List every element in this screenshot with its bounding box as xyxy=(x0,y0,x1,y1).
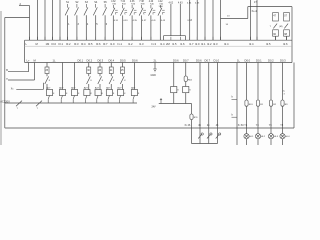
svg-text:I0.0: I0.0 xyxy=(52,42,57,46)
svg-text:b: b xyxy=(232,96,234,99)
wire output drop col x88.75 xyxy=(88,63,90,68)
limit switch stack column 2 contact xyxy=(284,24,288,29)
supply arrow 24V xyxy=(160,99,162,104)
wire lamp column x258 xyxy=(257,63,259,146)
wire coil KA2 jog to AC bus xyxy=(61,96,62,100)
relay coil K8 xyxy=(171,87,177,93)
wire M drop to a xyxy=(34,63,36,81)
svg-text:K: K xyxy=(138,93,140,95)
wire output drop col x111.25 xyxy=(110,63,112,68)
svg-text:Y4: Y4 xyxy=(256,125,260,127)
wire coil KA8 jog to AC bus xyxy=(133,96,134,100)
svg-text:D0.7: D0.7 xyxy=(205,59,211,63)
svg-text:45: 45 xyxy=(198,125,201,127)
svg-text:M: M xyxy=(36,42,39,46)
svg-text:K: K xyxy=(190,90,192,92)
svg-text:I0.3: I0.3 xyxy=(74,42,79,46)
svg-text:D0.1: D0.1 xyxy=(78,59,84,63)
svg-text:I0.7: I0.7 xyxy=(103,42,108,46)
svg-text:L+: L+ xyxy=(27,59,30,63)
svg-text:HL1: HL1 xyxy=(250,136,255,138)
svg-text:I1.5: I1.5 xyxy=(172,42,177,46)
svg-text:K: K xyxy=(124,14,126,16)
wire long bottom rail y128 xyxy=(5,127,294,129)
svg-text:30: 30 xyxy=(87,70,90,72)
wire contact to coil xyxy=(99,84,101,90)
wire coil KA3 jog to AC bus xyxy=(73,96,74,100)
svg-text:X6: X6 xyxy=(11,89,14,91)
contact K1 xyxy=(45,76,49,84)
svg-text:HL3: HL3 xyxy=(274,136,279,138)
svg-text:4.64: 4.64 xyxy=(187,2,192,4)
svg-text:D0.6: D0.6 xyxy=(196,59,202,63)
svg-text:24V: 24V xyxy=(152,107,157,109)
terminal block 26 xyxy=(98,67,102,74)
wire top-left horizontal xyxy=(5,17,30,19)
relay coil K9 xyxy=(183,87,189,93)
svg-text:2a: 2a xyxy=(283,91,286,93)
svg-text:D0.7: D0.7 xyxy=(183,59,189,63)
lamp HL2 xyxy=(255,134,260,139)
wire output drop col x47 xyxy=(46,63,48,68)
svg-text:GND: GND xyxy=(151,74,157,77)
svg-text:1L: 1L xyxy=(53,59,56,63)
resistor R1 xyxy=(256,100,259,106)
svg-text:07: 07 xyxy=(284,14,287,17)
svg-text:6: 6 xyxy=(106,23,108,26)
node 2 entry stub xyxy=(19,5,30,7)
svg-text:I1.2: I1.2 xyxy=(128,42,133,46)
svg-text:98: 98 xyxy=(284,33,287,36)
wire solenoid column x208.75 xyxy=(208,63,210,144)
svg-text:S3: S3 xyxy=(85,1,89,4)
svg-text:K: K xyxy=(91,80,93,82)
resistor R01 xyxy=(245,100,248,106)
fuse FU1 xyxy=(16,101,22,107)
svg-text:D0.6: D0.6 xyxy=(173,59,179,63)
svg-text:44: 44 xyxy=(207,125,210,127)
wire vertical col x205.0 xyxy=(204,0,206,40)
wire bypass bump right vertical xyxy=(185,36,187,41)
scan page edge streak xyxy=(0,11,2,145)
wire L+ drop to B xyxy=(28,63,30,72)
wire bottom solenoid rail xyxy=(192,143,218,145)
fuse FU2 xyxy=(36,101,42,107)
svg-text:I1.1: I1.1 xyxy=(118,42,123,46)
resistor R2 xyxy=(269,100,272,106)
svg-text:1L: 1L xyxy=(237,59,240,63)
svg-text:R1: R1 xyxy=(260,104,264,106)
svg-text:90: 90 xyxy=(273,33,276,36)
wire below terminal block xyxy=(122,74,124,77)
relay coil KA2 xyxy=(59,90,65,96)
wire step horizontal y18.5 xyxy=(221,18,248,20)
terminal block 30 xyxy=(87,67,91,74)
svg-text:T: T xyxy=(17,108,19,110)
svg-text:K: K xyxy=(143,14,145,16)
wire left vertical rail xyxy=(4,18,6,129)
svg-text:Y6: Y6 xyxy=(269,125,273,127)
svg-text:5: 5 xyxy=(96,23,98,26)
relay coil KA3 xyxy=(71,90,77,96)
wire vertical col x250.5 xyxy=(250,0,252,40)
relay coil KA7 xyxy=(118,90,124,96)
svg-text:K: K xyxy=(134,14,136,16)
wire below terminal block xyxy=(46,74,48,77)
svg-text:D0.6: D0.6 xyxy=(132,59,138,63)
solenoid YV2 symbol xyxy=(207,134,211,138)
svg-text:I1.4: I1.4 xyxy=(160,42,165,46)
wire step vertical x247.8 xyxy=(247,7,249,19)
svg-text:R2: R2 xyxy=(273,104,277,106)
wire drop x185.75 xyxy=(185,63,187,77)
svg-text:HL4: HL4 xyxy=(286,136,291,138)
svg-text:R3: R3 xyxy=(285,104,289,106)
resistor R02 xyxy=(184,76,187,82)
svg-text:K: K xyxy=(102,93,104,95)
wire lamp feed column x237 xyxy=(236,63,238,146)
limit switch stack column 2 box bottom xyxy=(284,30,290,36)
svg-text:4.65: 4.65 xyxy=(195,2,200,4)
svg-text:2L: 2L xyxy=(154,59,157,63)
wire solenoid column x200.0 xyxy=(199,63,201,144)
wire output drop to coil x62.5 xyxy=(62,63,64,90)
svg-text:3: 3 xyxy=(284,94,286,96)
svg-text:I0.1: I0.1 xyxy=(59,42,64,46)
wire contact to coil xyxy=(122,84,124,90)
svg-text:D0.5: D0.5 xyxy=(120,59,126,63)
wire bypass bump left vertical xyxy=(163,36,165,41)
svg-text:R02: R02 xyxy=(188,80,193,82)
svg-text:4.41: 4.41 xyxy=(151,20,156,22)
svg-text:21: 21 xyxy=(110,70,113,72)
svg-text:D0.0: D0.0 xyxy=(245,59,251,63)
svg-text:Y2: Y2 xyxy=(244,125,248,127)
terminal ticks on input line xyxy=(30,37,287,40)
contact K3 xyxy=(98,76,102,84)
svg-text:I0.2: I0.2 xyxy=(66,42,71,46)
svg-text:K: K xyxy=(113,93,115,95)
svg-text:S4: S4 xyxy=(94,1,98,4)
wire contact to coil xyxy=(88,84,90,90)
wire R02 to coil xyxy=(185,82,187,87)
svg-text:b: b xyxy=(232,114,234,117)
contact K5 xyxy=(120,76,124,84)
PLC left edge xyxy=(24,40,26,62)
svg-text:4: 4 xyxy=(87,23,89,26)
svg-text:L: L xyxy=(26,42,28,46)
ground GND xyxy=(154,63,156,70)
limit switch stack column 2 box top xyxy=(284,13,290,21)
wire solenoid column x217.5 xyxy=(217,63,219,144)
svg-text:4.43: 4.43 xyxy=(161,20,166,22)
resistor R3 xyxy=(281,100,284,106)
svg-text:4.37: 4.37 xyxy=(142,20,147,22)
svg-text:(M): (M) xyxy=(279,26,283,28)
svg-text:3: 3 xyxy=(78,23,80,26)
relay coil KA5 xyxy=(95,90,101,96)
svg-text:4.33: 4.33 xyxy=(123,20,128,22)
wire vertical col x220.5 xyxy=(220,0,222,40)
wire drop x191.5 xyxy=(191,104,193,115)
terminal block 21 xyxy=(109,67,113,74)
wire R11 down xyxy=(191,120,193,144)
svg-text:K: K xyxy=(53,93,55,95)
wire drop x173.75 xyxy=(173,63,175,87)
svg-text:D0.3: D0.3 xyxy=(98,59,104,63)
wire below terminal block xyxy=(88,74,90,77)
svg-text:4.31: 4.31 xyxy=(114,20,119,22)
PLC input terminal line xyxy=(25,39,292,41)
wire coil KA1 jog to AC bus xyxy=(48,96,49,100)
PLC input terminal labels xyxy=(26,42,288,46)
limit switch stack column 1 contact xyxy=(273,24,277,29)
svg-text:D0.4: D0.4 xyxy=(109,59,115,63)
svg-text:1M: 1M xyxy=(46,42,50,46)
wire AC220V bus xyxy=(5,102,137,104)
svg-text:HL2: HL2 xyxy=(261,136,266,138)
wire below terminal block xyxy=(99,74,101,77)
limit switch stack column 1 box top xyxy=(273,13,279,21)
svg-text:B: B xyxy=(6,69,8,72)
wire lamp column x246.5 xyxy=(246,63,248,146)
terminal block 25 xyxy=(121,67,125,74)
svg-text:T: T xyxy=(37,108,39,110)
svg-text:K: K xyxy=(90,93,92,95)
svg-text:47: 47 xyxy=(273,14,276,17)
wire coil K8 down xyxy=(173,93,175,104)
svg-text:I1.3: I1.3 xyxy=(152,42,157,46)
relay coil KA8 xyxy=(131,90,137,96)
svg-text:D0.1: D0.1 xyxy=(256,59,262,63)
wire bypass bump horizontal xyxy=(164,35,186,37)
svg-text:I2.1: I2.1 xyxy=(201,42,206,46)
svg-text:S2: S2 xyxy=(75,1,79,4)
wire X6 horizontal xyxy=(16,88,43,90)
svg-text:K: K xyxy=(102,80,104,82)
wire coil KA4 jog to AC bus xyxy=(86,96,87,100)
relay coil KA1 xyxy=(46,90,52,96)
resistor R11 xyxy=(190,114,193,120)
wire output drop col x122.5 xyxy=(122,63,124,68)
limit switch stack column 1 box bottom xyxy=(273,30,279,36)
svg-text:43: 43 xyxy=(216,125,219,127)
wire vertical col x45 xyxy=(44,0,46,40)
svg-text:I2.4: I2.4 xyxy=(224,42,229,46)
wire coil KA7 jog to AC bus xyxy=(119,96,120,100)
svg-text:I0.5: I0.5 xyxy=(88,42,93,46)
svg-text:D1.0: D1.0 xyxy=(214,59,220,63)
solenoid YV1 symbol xyxy=(198,134,202,138)
wire output drop to coil x74.5 xyxy=(74,63,76,90)
svg-text:25: 25 xyxy=(46,70,49,72)
svg-text:S5: S5 xyxy=(104,1,108,4)
wire coil KA5 jog to AC bus xyxy=(97,96,98,100)
svg-text:I2.0: I2.0 xyxy=(195,42,200,46)
svg-text:S1: S1 xyxy=(66,1,70,4)
svg-text:5.60: 5.60 xyxy=(159,6,164,8)
wire lamp column x282.5 xyxy=(282,63,284,146)
svg-text:R11: R11 xyxy=(194,117,199,119)
wire contact to coil xyxy=(110,84,112,90)
PLC output terminal line xyxy=(25,62,292,64)
wire vertical col x197.2 xyxy=(196,0,198,40)
lamp HL4 xyxy=(280,134,285,139)
svg-text:a: a xyxy=(6,78,8,81)
svg-text:X0.61: X0.61 xyxy=(252,10,258,13)
wire vertical col x189.7 xyxy=(189,0,191,40)
svg-text:R01: R01 xyxy=(249,104,254,106)
wire vertical col x29.5 xyxy=(29,6,31,41)
wire right loop border x294 xyxy=(293,63,295,129)
svg-text:Y5: Y5 xyxy=(280,125,284,127)
svg-text:D0.2: D0.2 xyxy=(87,59,93,63)
svg-text:I2.2: I2.2 xyxy=(207,42,212,46)
solenoid YV3 symbol xyxy=(216,134,220,138)
svg-text:K: K xyxy=(153,14,155,16)
svg-text:K: K xyxy=(49,80,51,82)
svg-text:I0.6: I0.6 xyxy=(96,42,101,46)
svg-text:I1.3: I1.3 xyxy=(139,42,144,46)
svg-text:1: 1 xyxy=(68,23,70,26)
wire output drop to coil x134.4 xyxy=(133,63,135,90)
svg-text:4.35: 4.35 xyxy=(133,20,138,22)
wire lamp column x271 xyxy=(270,63,272,146)
wire coil K9 down xyxy=(185,93,187,104)
wire X6 riser xyxy=(43,83,45,90)
svg-text:K: K xyxy=(66,93,68,95)
lamp HL3 xyxy=(268,134,273,139)
PLC input terminal strip lower rule xyxy=(25,45,292,47)
svg-text:K: K xyxy=(78,93,80,95)
svg-text:D0.2: D0.2 xyxy=(268,59,274,63)
wire contact to coil xyxy=(46,84,48,90)
wire right border of PLC x292 xyxy=(291,7,293,63)
svg-text:16: 16 xyxy=(226,24,229,26)
svg-text:X2 63: X2 63 xyxy=(238,125,244,127)
svg-text:I1.7: I1.7 xyxy=(189,42,194,46)
svg-text:K: K xyxy=(178,90,180,92)
svg-text:I0.4: I0.4 xyxy=(81,42,86,46)
wire vertical col x37.5 xyxy=(37,0,39,40)
svg-text:I2.5: I2.5 xyxy=(266,42,271,46)
lamp HL1 xyxy=(244,134,249,139)
svg-text:M: M xyxy=(34,59,37,63)
svg-text:I2.4: I2.4 xyxy=(249,42,254,46)
svg-text:K: K xyxy=(113,80,115,82)
svg-text:D0.3: D0.3 xyxy=(280,59,286,63)
svg-text:s 63: s 63 xyxy=(188,20,193,22)
svg-text:K: K xyxy=(124,93,126,95)
svg-text:I2.6: I2.6 xyxy=(283,42,288,46)
svg-text:I1.6: I1.6 xyxy=(180,42,185,46)
svg-text:25: 25 xyxy=(121,70,124,72)
svg-text:13: 13 xyxy=(227,16,230,18)
svg-text:I1.0: I1.0 xyxy=(110,42,115,46)
relay coil KA4 xyxy=(84,90,90,96)
wire top-right horizontal y6.6 xyxy=(248,6,292,8)
svg-text:26: 26 xyxy=(99,70,102,72)
relay coil KA6 xyxy=(106,90,112,96)
PLC output terminal labels xyxy=(27,59,287,63)
svg-text:X1 46: X1 46 xyxy=(185,125,191,127)
contact K4 xyxy=(109,76,113,84)
svg-text:T: T xyxy=(270,26,272,28)
wire output drop col x100 xyxy=(99,63,101,68)
wire vertical col x52.5 xyxy=(52,0,54,40)
wire vertical col x257 xyxy=(256,0,258,40)
wire limit switch column 2 tail xyxy=(286,36,288,40)
svg-text:I2.3: I2.3 xyxy=(213,42,218,46)
svg-text:K: K xyxy=(124,80,126,82)
wire limit switch column 1 tail xyxy=(275,36,277,40)
wire coil KA6 jog to AC bus xyxy=(108,96,109,100)
svg-text:K: K xyxy=(115,14,117,16)
svg-text:K: K xyxy=(162,14,164,16)
contact K2 xyxy=(87,76,91,84)
wire vertical col x213.0 xyxy=(212,0,214,40)
wire below terminal block xyxy=(110,74,112,77)
terminal block 25 xyxy=(45,67,49,74)
wire vertical col x60 xyxy=(59,0,61,40)
svg-text:2M: 2M xyxy=(166,42,170,46)
wire 24V rail xyxy=(159,103,192,105)
